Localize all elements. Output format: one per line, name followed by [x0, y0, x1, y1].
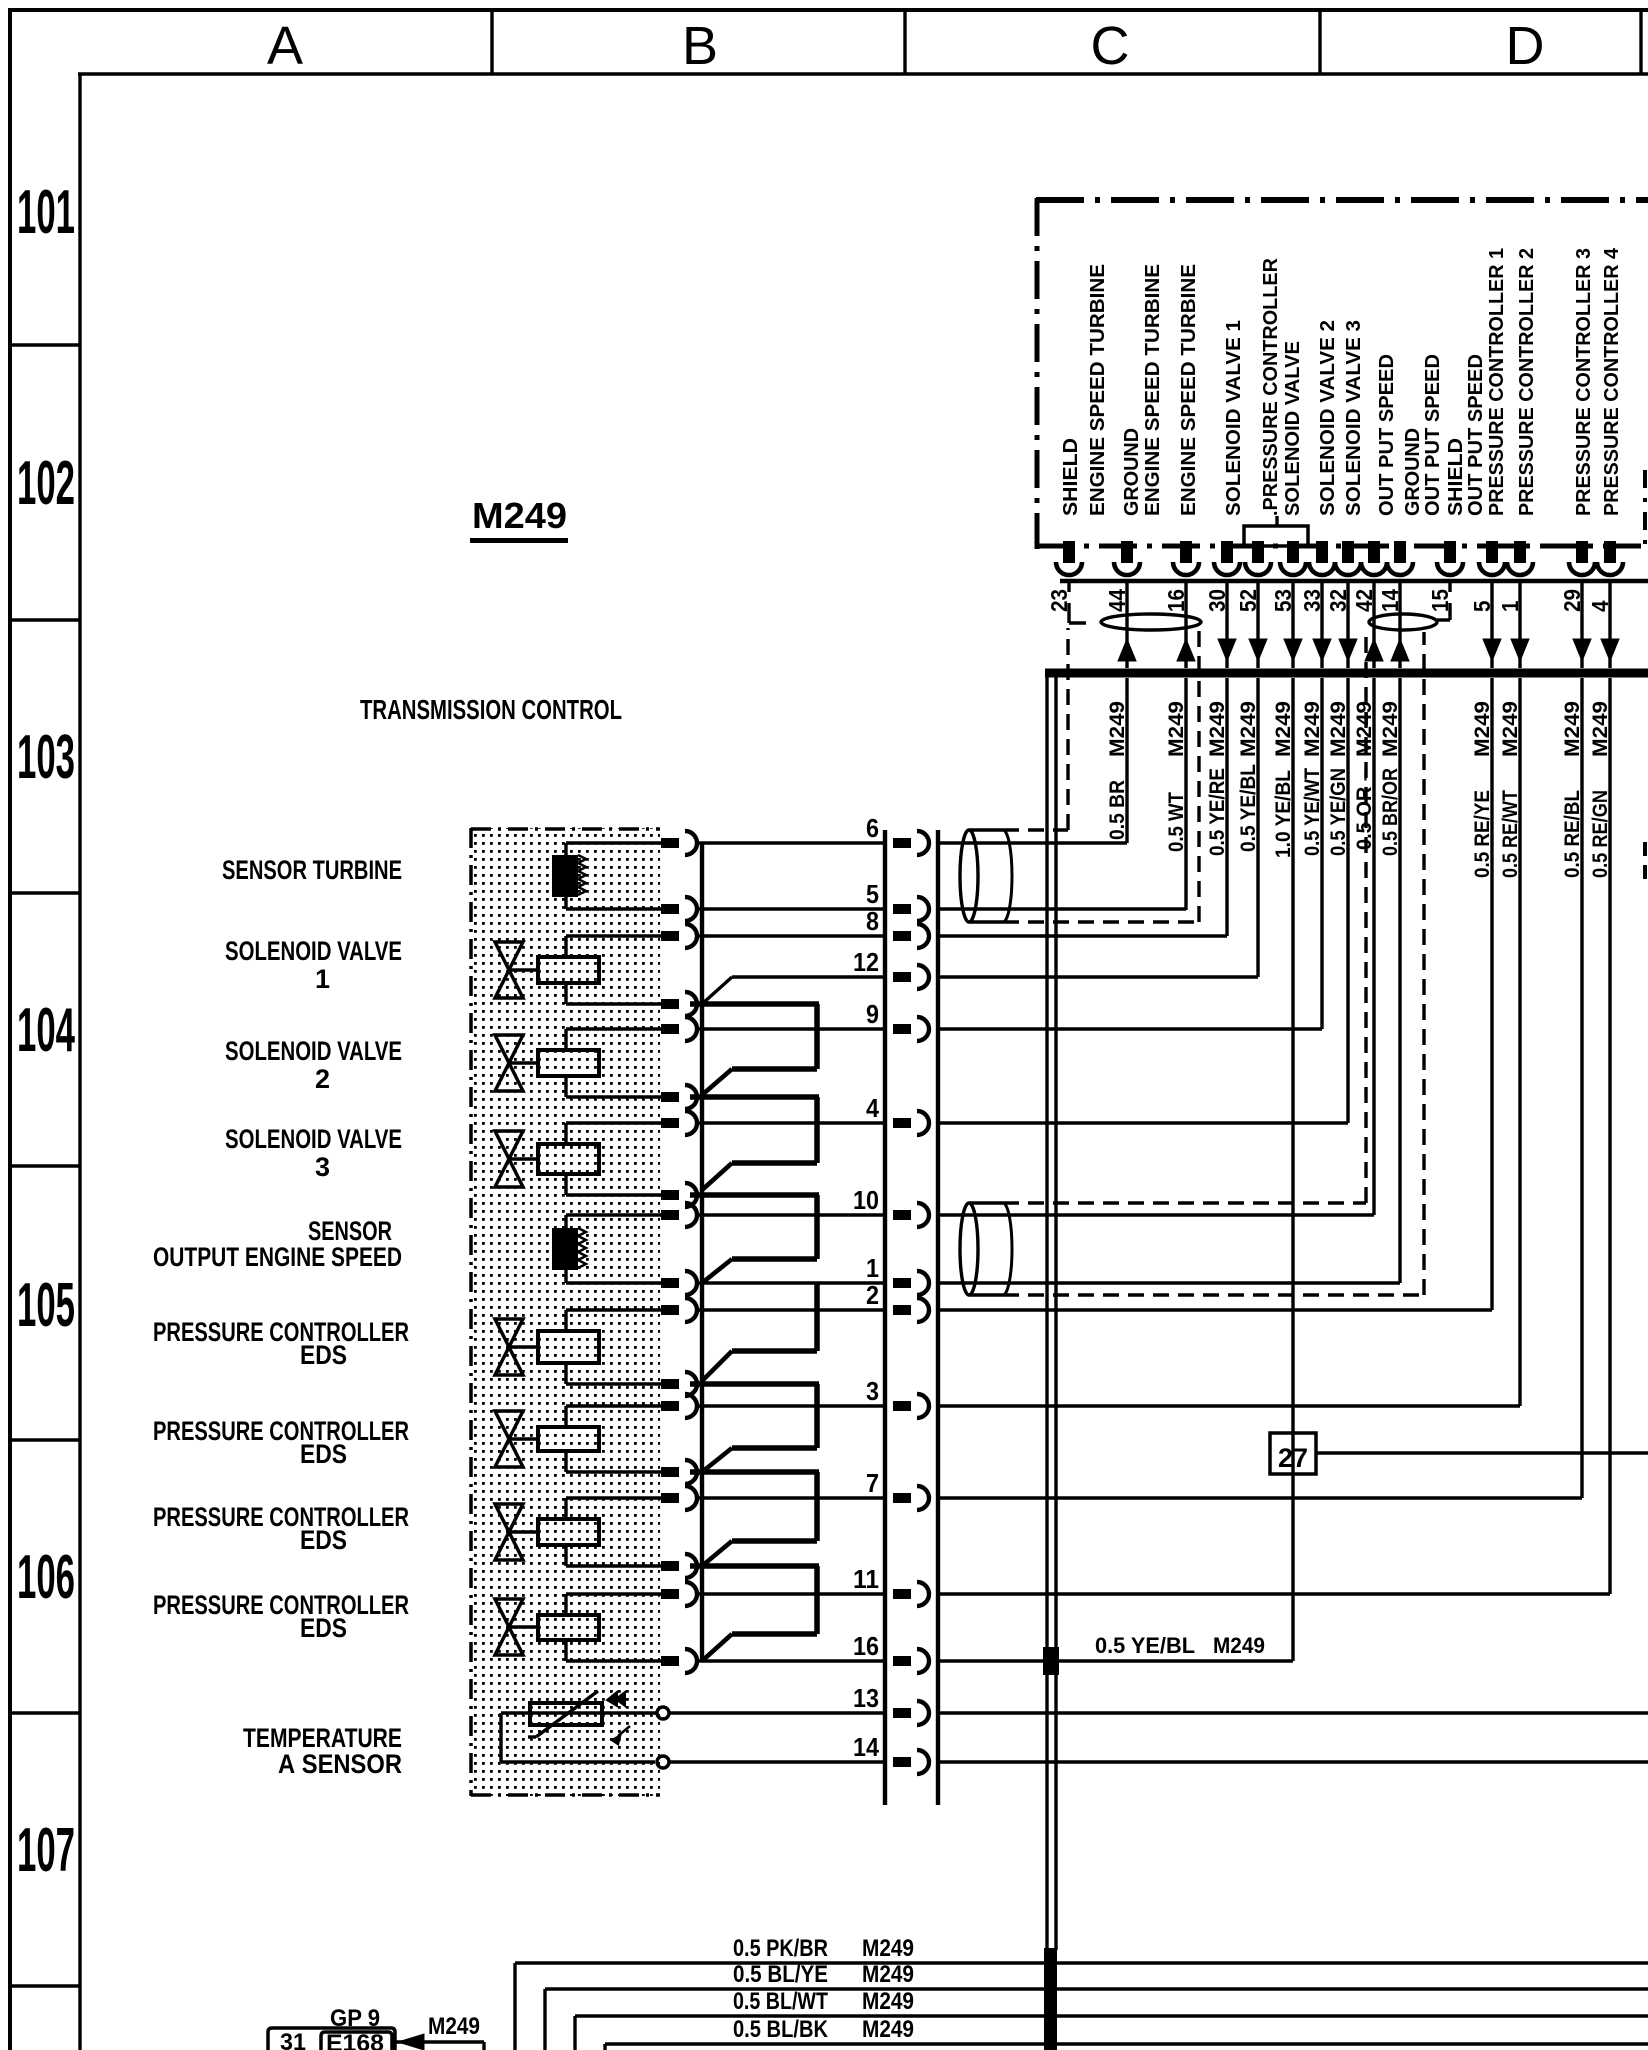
wire row 5 right segment: [938, 907, 1186, 910]
ECU dual header 52/53: [1244, 516, 1308, 546]
shield ellipse pins 42/14: [1369, 614, 1437, 630]
ECU pin number 5: [1469, 600, 1495, 612]
label M249 (ground wire): [428, 2013, 480, 2040]
wire label 0.5 RE/YE M249 (pin 5): [1471, 701, 1494, 878]
svg-text:PRESSURE CONTROLLER: PRESSURE CONTROLLER: [153, 1416, 409, 1446]
connector X1 pin 14: [893, 1750, 929, 1774]
label SOLENOID VALVE 2: [225, 1036, 402, 1094]
wire row 13 right segment: [938, 1711, 1648, 1714]
label M249 title: [470, 495, 568, 543]
transmission box pin row3: [661, 1394, 697, 1418]
ECU pin number 42: [1351, 589, 1377, 612]
svg-text:106: 106: [17, 1543, 75, 1612]
row label 102: [17, 449, 75, 518]
ECU pin number 33: [1299, 589, 1325, 612]
svg-text:105: 105: [17, 1271, 75, 1340]
shield dashed bottom (output speed): [1003, 632, 1424, 1295]
wire row 1 right segment: [938, 1281, 1400, 1284]
wire row 10 left segment: [697, 1213, 886, 1216]
svg-text:0.5 PK/BR: 0.5 PK/BR: [733, 1935, 828, 1962]
svg-text:31: 31: [280, 2029, 306, 2050]
ECU box border bottom: [1036, 544, 1648, 549]
ECU pin label OUT PUT SPEED (12): [1422, 354, 1444, 516]
ECU pin 52 body: [1245, 541, 1271, 575]
svg-text:0.5 OR –: 0.5 OR –: [1353, 770, 1376, 850]
ECU pin rail: [1060, 579, 1648, 584]
svg-text:M249: M249: [862, 1961, 914, 1988]
shield dashed bottom (turbine): [1003, 630, 1199, 922]
svg-text:OUT PUT SPEED: OUT PUT SPEED: [1422, 354, 1444, 516]
svg-text:GROUND: GROUND: [1402, 428, 1424, 516]
svg-text:10: 10: [853, 1185, 879, 1215]
svg-text:SOLENOID VALVE 2: SOLENOID VALVE 2: [1317, 320, 1339, 516]
ECU pin number 30: [1204, 589, 1230, 612]
ECU pin label PRESSURE CONTROLLER 2 (16): [1516, 248, 1538, 516]
label PRESSURE CONTROLLER EDS 3: [153, 1502, 409, 1555]
transmission box border bottom: [471, 1793, 660, 1797]
svg-text:102: 102: [17, 449, 75, 518]
sensor turbine B1: [552, 843, 661, 909]
row separator 5: [8, 1711, 80, 1714]
svg-text:M249: M249: [1589, 701, 1612, 757]
svg-text:A SENSOR: A SENSOR: [278, 1749, 402, 1779]
svg-text:107: 107: [17, 1816, 75, 1885]
wire row 14 left segment: [669, 1760, 886, 1763]
svg-text:OUT PUT SPEED: OUT PUT SPEED: [1376, 354, 1398, 516]
ECU pin number 1: [1497, 600, 1523, 612]
svg-text:M249: M249: [1353, 701, 1376, 757]
connector X1 pin 13: [893, 1701, 929, 1725]
svg-text:13: 13: [853, 1683, 879, 1713]
wire row 4 left segment: [697, 1121, 886, 1124]
wire row 8 left segment: [697, 934, 886, 937]
wire from box 27 to right: [1316, 1451, 1648, 1454]
svg-text:SHIELD: SHIELD: [1060, 438, 1082, 516]
header separator D-E: [1639, 10, 1642, 74]
connector X1 pin 1: [893, 1271, 929, 1295]
svg-text:3: 3: [866, 1376, 879, 1406]
svg-text:.PRESSURE CONTROLLER: .PRESSURE CONTROLLER: [1260, 257, 1282, 516]
svg-text:103: 103: [17, 723, 75, 792]
svg-text:3: 3: [315, 1152, 330, 1182]
svg-text:M249: M249: [1213, 1633, 1265, 1658]
wire row 12 left segment: [732, 975, 886, 978]
ECU pin number 16: [1163, 589, 1189, 612]
svg-text:2: 2: [315, 1064, 330, 1094]
ECU pin number 32: [1325, 589, 1351, 612]
svg-text:B: B: [682, 16, 718, 76]
wire label 0.5 BR M249 (pin 44): [1106, 701, 1129, 840]
wire row 2 right segment: [938, 1308, 1492, 1311]
svg-text:PRESSURE CONTROLLER 1: PRESSURE CONTROLLER 1: [1486, 248, 1508, 516]
wire 0.5 BL/YE M249: [545, 1989, 1648, 2050]
svg-text:M249: M249: [1379, 701, 1402, 757]
row separator 1: [8, 618, 80, 621]
svg-text:M249: M249: [1106, 701, 1129, 757]
svg-text:104: 104: [17, 996, 75, 1065]
wire ECU pin 29 to bus (arrow): [1573, 583, 1591, 668]
svg-text:PRESSURE CONTROLLER: PRESSURE CONTROLLER: [153, 1317, 409, 1347]
ECU pin label PRESSURE CONTROLLER 3 (17): [1573, 248, 1595, 516]
svg-text:0.5 RE/GN: 0.5 RE/GN: [1589, 790, 1612, 878]
svg-text:SHIELD: SHIELD: [1445, 438, 1467, 516]
wire ECU pin 5 vertical: [1490, 678, 1493, 1310]
transmission box pin row5: [661, 897, 697, 921]
connector X1 pin number 11: [853, 1564, 879, 1594]
trunk wire vertical: [700, 843, 704, 1661]
svg-text:14: 14: [853, 1732, 879, 1762]
transmission box pin EDS3 chain: [661, 1554, 697, 1578]
wire 0.5 BL/BK M249: [605, 2044, 1648, 2050]
wire ECU pin 30 to bus (arrow): [1218, 583, 1236, 668]
svg-text:0.5 BL/BK: 0.5 BL/BK: [733, 2016, 829, 2043]
row label 104: [17, 996, 75, 1065]
svg-text:5: 5: [866, 879, 879, 909]
transmission control unit box (stipple): [472, 828, 660, 1796]
connector X1 right rail: [936, 830, 940, 1805]
connector X1 pin number 2: [866, 1280, 879, 1310]
transmission box pin row14 (circle): [657, 1756, 669, 1768]
ECU pin label SOLENOID VALVE 1 (5): [1223, 320, 1245, 516]
column label B: [682, 16, 718, 76]
shield bracket pin 15: [1437, 583, 1450, 620]
wire ECU pin 52 vertical: [1256, 678, 1259, 977]
row separator 2: [8, 891, 80, 894]
svg-text:M249: M249: [1471, 701, 1494, 757]
ECU pin 1 body: [1507, 541, 1533, 575]
wire ECU pin 32 to bus (arrow): [1339, 583, 1357, 668]
supply chain link 2: [690, 1097, 819, 1190]
connector X1 pin 12: [893, 965, 929, 989]
wire row 9 left segment: [697, 1027, 886, 1030]
main bus horizontal: [1045, 669, 1648, 678]
wire row 7 right segment: [938, 1496, 1582, 1499]
svg-text:PRESSURE CONTROLLER: PRESSURE CONTROLLER: [153, 1502, 409, 1532]
ECU pin 33 body: [1309, 541, 1335, 575]
svg-text:SOLENOID VALVE 3: SOLENOID VALVE 3: [1343, 320, 1365, 516]
ECU pin number 23: [1046, 589, 1072, 612]
svg-text:SOLENOID VALVE 1: SOLENOID VALVE 1: [1223, 320, 1245, 516]
svg-text:M249: M249: [1206, 701, 1229, 757]
wire ECU pin 44 to bus (arrow): [1118, 583, 1136, 668]
supply chain link 4: [702, 1283, 817, 1381]
wire ECU pin 29 vertical: [1580, 678, 1583, 1498]
ECU box border right fragment: [1643, 470, 1647, 880]
supply chain link 1: [690, 1004, 819, 1095]
svg-text:0.5 BR: 0.5 BR: [1106, 780, 1129, 840]
connector X1 pin number 10: [853, 1185, 879, 1215]
ECU pin label ENGINE SPEED TURBINE (3): [1142, 264, 1164, 516]
wire row 12 right segment: [938, 975, 1258, 978]
transmission box pin EDS2 chain: [661, 1460, 697, 1484]
label SENSOR OUTPUT ENGINE SPEED: [153, 1216, 402, 1272]
label 0.5 YE/BL M249 (row16): [1095, 1633, 1265, 1658]
wire row 11 left segment: [697, 1592, 886, 1595]
svg-text:11: 11: [853, 1564, 879, 1594]
label PRESSURE CONTROLLER EDS 2: [153, 1416, 409, 1469]
wire label 0.5 YE/RE M249 (pin 30): [1206, 701, 1229, 856]
wire label 0.5 YE/GN M249 (pin 32): [1327, 701, 1350, 856]
ECU pin number 15: [1427, 589, 1453, 612]
ECU pin 32 body: [1335, 541, 1361, 575]
svg-text:TRANSMISSION CONTROL: TRANSMISSION CONTROL: [360, 694, 622, 725]
wire ECU pin 1 to bus (arrow): [1511, 583, 1529, 668]
wire row 16 right segment: [938, 1659, 1293, 1662]
connector box 27: [1270, 1433, 1316, 1474]
header separator B-C: [903, 10, 906, 74]
svg-text:16: 16: [853, 1631, 879, 1661]
ECU box border top: [1036, 197, 1648, 203]
wire row 7 left segment: [697, 1496, 886, 1499]
wire label 0.5 RE/BL M249 (pin 29): [1561, 701, 1584, 878]
wire label 1.0 YE/BL M249 (pin 53): [1272, 701, 1295, 858]
wire ECU pin 53 vertical: [1291, 678, 1294, 1661]
row label 101: [17, 178, 75, 247]
svg-text:0.5 YE/WT: 0.5 YE/WT: [1301, 768, 1324, 856]
svg-text:M249: M249: [428, 2013, 480, 2040]
ECU pin 16 body: [1173, 541, 1199, 575]
row separator 0: [8, 343, 80, 346]
wire label 0.5 RE/WT M249 (pin 1): [1499, 701, 1522, 878]
ECU pin label SOLENOID VALVE 2 (8): [1317, 320, 1339, 516]
column label A: [267, 16, 303, 76]
column label D: [1506, 16, 1545, 76]
row label 105: [17, 1271, 75, 1340]
ECU pin number 53: [1270, 589, 1296, 612]
wire row 4 right segment: [938, 1121, 1348, 1124]
svg-text:0.5 BL/YE: 0.5 BL/YE: [733, 1961, 828, 1988]
svg-text:M249: M249: [862, 1935, 914, 1962]
label SOLENOID VALVE 1: [225, 936, 402, 994]
label 0.5 BL/YE M249: [733, 1961, 914, 1988]
solenoid valve 2 Y2: [495, 1029, 661, 1097]
svg-text:1.0 YE/BL: 1.0 YE/BL: [1272, 770, 1295, 858]
header separator A-B: [490, 10, 493, 74]
wire ECU pin 33 vertical: [1320, 678, 1323, 1029]
wire row 3 right segment: [938, 1404, 1520, 1407]
svg-text:12: 12: [853, 947, 879, 977]
wire row 1 left segment: [697, 1281, 886, 1284]
svg-text:EDS: EDS: [300, 1613, 347, 1643]
ECU pin label GROUND (11): [1402, 428, 1424, 516]
svg-text:8: 8: [866, 906, 879, 936]
svg-text:M249: M249: [472, 495, 567, 536]
svg-text:M249: M249: [862, 2016, 914, 2043]
connector X1 pin number 9: [866, 999, 879, 1029]
wire diagonal to row 12: [702, 977, 732, 1004]
label TEMPERATURE ASENSOR: [243, 1723, 402, 1779]
shield dashed top (output speed): [1003, 632, 1366, 1203]
transmission box pin row6: [661, 831, 697, 855]
svg-text:M249: M249: [1237, 701, 1260, 757]
ECU pin label ENGINE SPEED TURBINE (4): [1178, 264, 1200, 516]
ECU pin 44 body: [1114, 541, 1140, 575]
solenoid valve 3 Y3: [495, 1123, 661, 1195]
connector X1 pin number 8: [866, 906, 879, 936]
svg-text:EDS: EDS: [300, 1525, 347, 1555]
pressure controller EDS4 Y7: [495, 1594, 661, 1661]
wire ECU pin 14 to bus (arrow): [1391, 583, 1409, 668]
shield ellipse pins 44/16: [1101, 614, 1201, 630]
wire row 13 left segment: [669, 1711, 886, 1714]
transmission box pin EDS1 chain: [661, 1372, 697, 1396]
transmission box pin row7: [661, 1486, 697, 1510]
transmission box pin SV1 chain: [661, 992, 697, 1016]
connector X1 pin 16: [893, 1649, 929, 1673]
svg-text:SOLENOID VALVE: SOLENOID VALVE: [1282, 341, 1304, 516]
label SOLENOID VALVE 3: [225, 1124, 402, 1182]
supply chain link 5: [690, 1384, 819, 1472]
svg-text:0.5 BR/OR: 0.5 BR/OR: [1379, 768, 1402, 856]
connector X1 pin number 6: [866, 813, 879, 843]
ECU pin number 4: [1587, 600, 1613, 612]
svg-text:ENGINE SPEED TURBINE: ENGINE SPEED TURBINE: [1142, 264, 1164, 516]
wire label 0.5 WT M249 (pin 16): [1165, 701, 1188, 852]
svg-text:PRESSURE CONTROLLER 3: PRESSURE CONTROLLER 3: [1573, 248, 1595, 516]
connector X1 pin number 12: [853, 947, 879, 977]
svg-text:M249: M249: [1165, 701, 1188, 757]
wire label 0.5 RE/GN M249 (pin 4): [1589, 701, 1612, 878]
ECU pin label ENGINE SPEED TURBINE (1): [1087, 264, 1109, 516]
wire ECU pin 32 vertical: [1346, 678, 1349, 1123]
connector X1 pin number 5: [866, 879, 879, 909]
svg-text:101: 101: [17, 178, 75, 247]
supply chain link 7: [690, 1566, 819, 1661]
transmission box pin row16: [661, 1649, 697, 1673]
transmission box pin row2: [661, 1298, 697, 1322]
row label 103: [17, 723, 75, 792]
column label C: [1091, 16, 1130, 76]
ECU pin label SHIELD (13): [1445, 438, 1467, 516]
svg-text:0.5 YE/GN: 0.5 YE/GN: [1327, 768, 1350, 856]
transmission box border left: [469, 828, 473, 1796]
transmission box pin SV3 chain: [661, 1183, 697, 1207]
label GP 9: [330, 2005, 380, 2032]
wire ECU pin 16 to bus (arrow): [1177, 583, 1195, 668]
svg-text:ENGINE SPEED TURBINE: ENGINE SPEED TURBINE: [1087, 264, 1109, 516]
svg-text:0.5 RE/BL: 0.5 RE/BL: [1561, 790, 1584, 878]
temperature sensor B3: [501, 1691, 657, 1762]
wire row 2 left segment: [697, 1308, 886, 1311]
transmission box pin SV2 chain: [661, 1085, 697, 1109]
svg-text:M249: M249: [1499, 701, 1522, 757]
svg-text:OUT PUT SPEED: OUT PUT SPEED: [1465, 354, 1487, 516]
wire row 14 right segment: [938, 1760, 1648, 1763]
svg-text:GROUND: GROUND: [1121, 428, 1143, 516]
solenoid valve 1 Y1: [495, 936, 661, 1004]
wire ECU pin 33 to bus (arrow): [1313, 583, 1331, 668]
svg-text:SOLENOID VALVE: SOLENOID VALVE: [225, 1036, 402, 1066]
wire ECU pin 42 vertical: [1372, 678, 1375, 1215]
transmission box pin row9: [661, 1017, 697, 1041]
ground rail vertical pair: [1047, 677, 1056, 1950]
label 0.5 PK/BR M249: [733, 1935, 914, 1962]
connector X1 pin 9: [893, 1017, 929, 1041]
connector X1 pin 2: [893, 1298, 929, 1322]
label 0.5 BL/WT M249: [733, 1988, 914, 2015]
svg-text:SENSOR TURBINE: SENSOR TURBINE: [222, 855, 402, 885]
connector X1 pin number 4: [866, 1093, 879, 1123]
connector X1 pin number 3: [866, 1376, 879, 1406]
wire label 0.5 YE/BL M249 (pin 52): [1237, 701, 1260, 852]
arrow to E168: [395, 2034, 484, 2050]
ECU pin 14 body: [1387, 541, 1413, 575]
svg-text:M249: M249: [1301, 701, 1324, 757]
ECU pin 23 body: [1056, 541, 1082, 575]
wire row 3 left segment: [697, 1404, 886, 1407]
svg-text:SOLENOID VALVE: SOLENOID VALVE: [225, 1124, 402, 1154]
wire ECU pin 1 vertical: [1518, 678, 1521, 1406]
wire label 0.5 OR &#8211; M249 (pin 42): [1353, 701, 1376, 850]
label 0.5 BL/BK M249: [733, 2016, 914, 2043]
svg-text:4: 4: [866, 1093, 879, 1123]
wire row 10 right segment: [938, 1213, 1374, 1216]
svg-text:0.5 RE/YE: 0.5 RE/YE: [1471, 790, 1494, 878]
wire row 6 right segment: [938, 841, 1127, 844]
connector X1 pin 3: [893, 1394, 929, 1418]
ECU box border left: [1035, 198, 1040, 549]
pressure controller EDS2 Y5: [495, 1406, 661, 1472]
wire ECU pin 5 to bus (arrow): [1483, 583, 1501, 668]
wire row 9 right segment: [938, 1027, 1322, 1030]
ground connector 31 box: [268, 2028, 395, 2050]
svg-text:C: C: [1091, 16, 1130, 76]
wire ECU pin 30 vertical: [1225, 678, 1228, 936]
ECU pin 4 body: [1597, 541, 1623, 575]
ECU pin label OUT PUT SPEED (14): [1465, 354, 1487, 516]
ECU pin 15 body: [1437, 541, 1463, 575]
connector X1 pin number 14: [853, 1732, 879, 1762]
connector X1 pin number 7: [866, 1468, 879, 1498]
supply chain link 6: [690, 1472, 819, 1566]
row separator 4: [8, 1438, 80, 1441]
row separator 3: [8, 1164, 80, 1167]
connector X1 pin number 16: [853, 1631, 879, 1661]
wire label 0.5 YE/WT M249 (pin 33): [1301, 701, 1324, 856]
ground connector E168 box: [321, 2030, 392, 2050]
ECU pin label SOLENOID VALVE 3 (9): [1343, 320, 1365, 516]
ECU pin 5 body: [1479, 541, 1505, 575]
wire ECU pin 4 vertical: [1608, 678, 1611, 1594]
transmission box border top: [471, 827, 660, 831]
svg-text:M249: M249: [1272, 701, 1295, 757]
ECU pin number 44: [1104, 589, 1130, 612]
svg-text:EDS: EDS: [300, 1340, 347, 1370]
svg-text:PRESSURE CONTROLLER 4: PRESSURE CONTROLLER 4: [1601, 247, 1623, 516]
wire 0.5 PK/BR M249: [515, 1963, 1648, 2050]
wire row 8 right segment: [938, 934, 1227, 937]
svg-text:0.5 YE/BL: 0.5 YE/BL: [1237, 764, 1260, 852]
shield dashed top (turbine): [1003, 628, 1068, 830]
ECU pin 53 body: [1280, 541, 1306, 575]
svg-text:9: 9: [866, 999, 879, 1029]
connector X1 pin 6: [893, 831, 929, 855]
ground rail thick section: [1044, 1948, 1057, 2050]
ECU pin number 29: [1559, 589, 1585, 612]
svg-text:2: 2: [866, 1280, 879, 1310]
svg-text:27: 27: [1278, 1443, 1308, 1473]
shield bracket pin 23: [1069, 583, 1086, 623]
ECU pin label GROUND (2): [1121, 428, 1143, 516]
wire ECU pin 44 vertical: [1125, 678, 1128, 843]
ECU pin number 52: [1235, 589, 1261, 612]
svg-text:PRESSURE CONTROLLER: PRESSURE CONTROLLER: [153, 1590, 409, 1620]
label PRESSURE CONTROLLER EDS 1: [153, 1317, 409, 1370]
transmission box pin row8: [661, 924, 697, 948]
svg-text:A: A: [267, 16, 303, 76]
transmission box pin row1: [661, 1271, 697, 1295]
row separator 6: [8, 1984, 80, 1987]
